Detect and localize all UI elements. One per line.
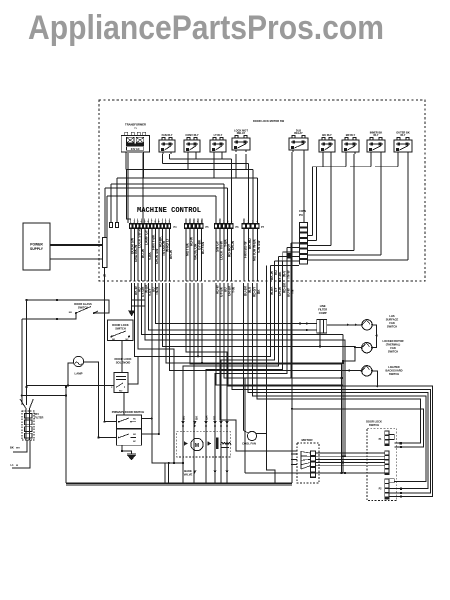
- svg-text:LIGHTED: LIGHTED: [388, 365, 400, 369]
- svg-text:M: M: [195, 443, 199, 449]
- svg-text:SWITCH: SWITCH: [78, 306, 88, 310]
- svg-text:SWITCH: SWITCH: [115, 327, 126, 331]
- svg-text:NO: NO: [133, 434, 136, 436]
- svg-text:MOTOR: MOTOR: [301, 438, 313, 442]
- svg-text:NO: NO: [69, 312, 73, 314]
- svg-text:LHS: LHS: [389, 314, 394, 318]
- svg-text:P3: P3: [299, 213, 303, 217]
- svg-text:POWER: POWER: [30, 243, 43, 247]
- svg-text:RFI: RFI: [35, 412, 39, 416]
- svg-text:NC: NC: [126, 339, 130, 341]
- svg-text:COOL FAN: COOL FAN: [242, 442, 256, 446]
- svg-text:SWITCH: SWITCH: [369, 423, 379, 427]
- svg-text:BK: BK: [10, 446, 14, 450]
- svg-text:VALVE: VALVE: [184, 473, 193, 477]
- svg-text:FAN BU-W: FAN BU-W: [243, 241, 247, 258]
- svg-text:MACHINE CONTROL: MACHINE CONTROL: [137, 207, 201, 215]
- svg-text:SURFACE: SURFACE: [386, 318, 399, 322]
- svg-text:LOCKED ROTOR: LOCKED ROTOR: [383, 339, 404, 343]
- svg-text:WH: WH: [16, 448, 20, 450]
- svg-text:COMP: COMP: [319, 311, 327, 315]
- svg-text:BK-RD: BK-RD: [248, 238, 252, 249]
- svg-text:MOTOR W-BK: MOTOR W-BK: [252, 238, 256, 261]
- svg-text:CONN: CONN: [299, 210, 306, 213]
- svg-text:OR-W: OR-W: [231, 240, 235, 250]
- svg-text:PRIMARY DOOR SWITCH: PRIMARY DOOR SWITCH: [112, 410, 144, 414]
- svg-text:DOOR LOCK: DOOR LOCK: [112, 323, 128, 327]
- svg-text:(THERMAL): (THERMAL): [386, 343, 401, 347]
- svg-text:BU FAN: BU FAN: [201, 241, 205, 254]
- svg-text:BU: BU: [181, 416, 185, 420]
- svg-text:BR RLY: BR RLY: [346, 133, 356, 137]
- svg-text:FAN: FAN: [389, 321, 394, 325]
- svg-text:RELAY: RELAY: [294, 131, 303, 135]
- svg-text:NO: NO: [119, 391, 123, 393]
- svg-text:SWITCH: SWITCH: [388, 350, 398, 354]
- svg-text:TRANSFORMER: TRANSFORMER: [125, 123, 146, 127]
- svg-text:BAKE: BAKE: [184, 469, 192, 473]
- svg-text:LAMP: LAMP: [75, 372, 83, 376]
- svg-text:CONV RLY: CONV RLY: [185, 133, 198, 137]
- svg-text:RLY: RLY: [401, 133, 406, 137]
- svg-text:DOOR LOCK: DOOR LOCK: [366, 420, 382, 424]
- svg-text:FILTER: FILTER: [318, 308, 327, 312]
- svg-text:RLY: RLY: [374, 133, 379, 137]
- svg-text:LT RLY: LT RLY: [214, 133, 223, 137]
- svg-text:V-W SW: V-W SW: [257, 240, 261, 253]
- svg-text:SWITCH: SWITCH: [389, 372, 399, 376]
- svg-text:NO: NO: [112, 339, 116, 341]
- svg-text:FAN RLY: FAN RLY: [162, 133, 173, 137]
- svg-text:SUPPLY: SUPPLY: [30, 247, 44, 251]
- svg-text:24V AC: 24V AC: [131, 147, 140, 151]
- svg-text:LINE: LINE: [320, 304, 326, 308]
- svg-text:BR-W: BR-W: [169, 249, 173, 259]
- svg-text:FILTER: FILTER: [35, 416, 44, 420]
- svg-text:FAN: FAN: [390, 346, 395, 350]
- svg-text:DOOR LOCK MOTOR SW: DOOR LOCK MOTOR SW: [253, 119, 285, 123]
- svg-text:DOOR GLASS: DOOR GLASS: [74, 302, 92, 306]
- svg-text:SWITCH: SWITCH: [387, 325, 397, 329]
- svg-text:AppliancePartsPros.com: AppliancePartsPros.com: [28, 9, 384, 47]
- svg-text:RELAY: RELAY: [237, 131, 246, 135]
- svg-text:BACKGUARD: BACKGUARD: [385, 369, 402, 373]
- svg-text:SOLENOID: SOLENOID: [116, 361, 131, 365]
- svg-text:BK RLY: BK RLY: [322, 133, 332, 137]
